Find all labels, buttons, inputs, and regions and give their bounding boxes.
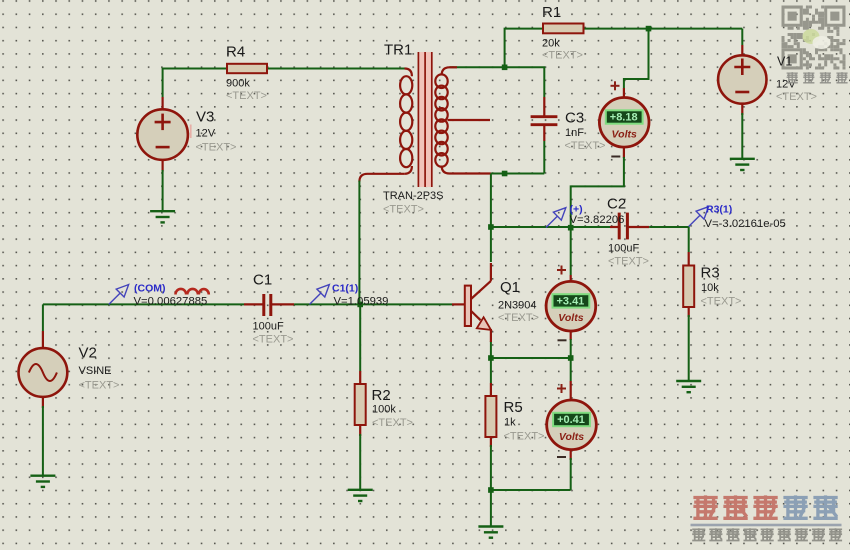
- wire VM2 bottom pin: [570, 331, 572, 340]
- watermark WeChat contact text (grey CJK): [787, 72, 798, 83]
- voltage probe R3(1): [689, 207, 709, 227]
- capacitor C1: [264, 294, 271, 316]
- VM1 plus terminal mark: [611, 81, 620, 90]
- watermark logo big text blue part: [783, 495, 807, 518]
- wire V3 top to R4 left: [163, 69, 227, 98]
- svg-text:Volts: Volts: [612, 128, 637, 140]
- wire VM3 bottom to bus: [570, 458, 572, 490]
- svg-text:<TEXT>: <TEXT>: [565, 140, 606, 152]
- wire bus to ground: [490, 490, 492, 527]
- voltage source V3: [137, 109, 188, 160]
- wire R1 right to V1 top: [584, 28, 743, 30]
- svg-text:2N3904: 2N3904: [498, 300, 537, 312]
- svg-text:<TEXT>: <TEXT>: [542, 50, 583, 62]
- wire VM2 bottom to bus: [570, 339, 572, 358]
- wire VM1 top pin: [623, 88, 625, 97]
- svg-text:TR1: TR1: [384, 42, 412, 59]
- wire VM1 bottom to node: [571, 157, 624, 228]
- ground below R3: [676, 381, 701, 392]
- transformer TR1 center tap: [448, 119, 491, 121]
- ground below V3: [150, 211, 175, 222]
- watermark faint pink strip: [190, 125, 192, 139]
- wire R2 bottom pin: [359, 425, 361, 436]
- svg-text:R4: R4: [226, 44, 245, 61]
- svg-text:C2: C2: [607, 196, 626, 213]
- wire R2 top pin: [359, 371, 361, 384]
- junction node VM2- / VM3+: [568, 355, 574, 361]
- wire R3 bottom pin: [688, 307, 690, 317]
- svg-text:+8.18: +8.18: [610, 111, 638, 123]
- svg-text:<TEXT>: <TEXT>: [701, 296, 742, 308]
- transformer TR1 secondary winding: [435, 67, 449, 173]
- svg-text:<TEXT>: <TEXT>: [776, 91, 817, 103]
- resistor R4: [227, 64, 267, 73]
- wire R2 bottom to ground: [359, 434, 361, 490]
- wire V2 top vertical: [42, 304, 44, 331]
- svg-text:C3: C3: [565, 110, 584, 127]
- voltmeter VM2 reading +3.41: [546, 281, 596, 331]
- wire VM2 top pin: [570, 275, 572, 281]
- voltmeter VM1 reading +8.18: [599, 98, 649, 148]
- transformer TR1 primary winding: [400, 69, 412, 174]
- wire V1 top pin: [741, 45, 743, 56]
- svg-text:100uF: 100uF: [253, 321, 284, 333]
- wire C1 left pin: [244, 303, 263, 305]
- svg-text:+0.41: +0.41: [557, 414, 585, 426]
- svg-text:TRAN-2P3S: TRAN-2P3S: [383, 190, 444, 202]
- svg-text:R3(1): R3(1): [706, 204, 732, 216]
- wire C3 bottom pin: [543, 126, 545, 142]
- wire TR1 sec bottom pin: [450, 172, 491, 174]
- wire collector bus to C2 left: [491, 226, 610, 228]
- junction node collector: [488, 224, 494, 230]
- wire TR1 sec top to C3 top: [450, 67, 545, 97]
- wire R1 left: [505, 29, 543, 68]
- svg-text:C1(1): C1(1): [332, 283, 358, 295]
- wire to voltmeter VM1 plus: [624, 29, 649, 88]
- svg-text:<TEXT>: <TEXT>: [383, 204, 424, 216]
- junction node emitter / R5: [488, 355, 494, 361]
- svg-text:V2: V2: [79, 345, 97, 362]
- voltmeter VM3 reading +0.41: [547, 400, 597, 450]
- wire V1 top vertical: [741, 29, 743, 45]
- junction node R1-left / secondary top: [502, 65, 508, 71]
- svg-text:Volts: Volts: [558, 312, 583, 324]
- voltage probe (+): [546, 208, 566, 228]
- junction node secondary bottom: [502, 171, 508, 177]
- wire V2 bottom to ground: [42, 406, 44, 476]
- wire emitter bus: [491, 357, 571, 359]
- voltage source V1: [718, 55, 766, 103]
- voltage source V2: [19, 348, 68, 397]
- svg-text:C1: C1: [253, 272, 272, 289]
- wire R4 right to TR1 primary top: [267, 68, 405, 70]
- wire R3 bottom to ground: [688, 315, 690, 381]
- wire Q1 base pin: [452, 303, 465, 305]
- wire C3 top pin: [543, 97, 545, 116]
- wire TR1 primary bottom: [359, 174, 404, 182]
- svg-text:20k: 20k: [542, 38, 560, 50]
- VM2 plus terminal mark: [557, 266, 566, 275]
- wire VM3 bottom pin: [570, 450, 572, 460]
- wire V3 bottom pin: [162, 159, 164, 172]
- wire V2 top to C1 left: [43, 303, 244, 305]
- voltage probe (COM): [109, 285, 129, 305]
- svg-text:Q1: Q1: [500, 279, 520, 296]
- svg-text:V3: V3: [196, 109, 214, 126]
- wire bottom bus: [491, 489, 571, 491]
- wire node to VM2 plus: [570, 228, 572, 275]
- svg-text:<TEXT>: <TEXT>: [196, 142, 237, 154]
- resistor R1: [543, 24, 584, 34]
- svg-text:R1: R1: [542, 4, 561, 21]
- ground below V1: [730, 159, 755, 170]
- svg-text:V=0.00627885: V=0.00627885: [134, 295, 208, 307]
- resistor R3: [683, 266, 694, 308]
- junction node (+) / VM1- / VM2+: [568, 225, 574, 231]
- svg-text:V1: V1: [777, 55, 792, 69]
- wire C1 right pin: [271, 303, 294, 305]
- watermark QR code: [782, 6, 803, 27]
- svg-text:<TEXT>: <TEXT>: [79, 380, 120, 392]
- VM3 plus terminal mark: [557, 384, 566, 393]
- resistor R5: [485, 396, 496, 437]
- wire TR1 primary bottom vertical: [358, 181, 360, 305]
- wire V2 top pin: [42, 331, 44, 349]
- wire sec bottom to C3 bottom: [491, 173, 544, 175]
- svg-text:R2: R2: [372, 387, 391, 404]
- svg-text:<TEXT>: <TEXT>: [504, 431, 545, 443]
- transistor Q1: [465, 263, 491, 342]
- watermark logo slogan grey text: [692, 528, 705, 540]
- junction node R1-right / V1 / VM1: [646, 26, 652, 32]
- resistor R2: [355, 384, 366, 425]
- ground main below R5: [478, 527, 503, 538]
- capacitor C2: [619, 213, 627, 240]
- transformer TR1 core: [419, 52, 431, 187]
- ground below R2: [348, 490, 373, 501]
- svg-text:VSINE: VSINE: [79, 365, 112, 377]
- svg-text:(COM): (COM): [134, 283, 166, 295]
- capacitor C3: [531, 117, 558, 125]
- svg-text:<TEXT>: <TEXT>: [608, 256, 649, 268]
- wire V3 top pin: [162, 97, 164, 110]
- svg-text:V=1.05939: V=1.05939: [334, 295, 389, 307]
- svg-text:<TEXT>: <TEXT>: [226, 90, 267, 102]
- svg-text:V=3.82206: V=3.82206: [570, 214, 625, 226]
- wire Q1 emitter to node: [490, 341, 492, 358]
- wire Q1 collector vertical: [490, 227, 492, 262]
- svg-text:<TEXT>: <TEXT>: [253, 334, 294, 346]
- svg-text:1nF: 1nF: [565, 127, 584, 139]
- VM1 minus terminal mark: [611, 156, 620, 158]
- junction node base / R2 / primary: [357, 302, 363, 308]
- svg-text:R3: R3: [701, 265, 720, 282]
- watermark red arcs near COM probe: [176, 289, 209, 295]
- junction node R5 bottom / ground: [488, 487, 494, 493]
- wire V1 bottom pin: [741, 104, 743, 115]
- svg-text:<TEXT>: <TEXT>: [372, 417, 413, 429]
- wire sec bottom down to collector node: [490, 174, 492, 228]
- svg-text:10k: 10k: [701, 282, 719, 294]
- wire C2 left pin: [610, 226, 619, 228]
- wire node to R5 top: [490, 358, 492, 383]
- svg-text:Volts: Volts: [559, 431, 584, 443]
- wire C2 right pin: [627, 226, 649, 228]
- wire R3 top pin: [688, 252, 690, 266]
- voltage probe C1(1): [310, 285, 330, 305]
- svg-text:<TEXT>: <TEXT>: [498, 312, 539, 324]
- wire VM1 bottom pin: [623, 148, 625, 158]
- wire V2 bottom pin: [42, 397, 44, 409]
- wire V3 bottom to ground: [162, 170, 164, 211]
- wire TR1 sec top pin: [450, 66, 458, 68]
- watermark logo underline: [691, 524, 842, 527]
- VM2 minus terminal mark: [558, 339, 567, 341]
- watermark logo big text red part: [693, 495, 717, 518]
- wire R5 bottom pin: [490, 437, 492, 447]
- watermark QR center logo blob: [803, 29, 820, 44]
- svg-text:100k: 100k: [372, 404, 396, 416]
- svg-text:1k: 1k: [504, 417, 516, 429]
- wire C3 bottom vertical: [543, 141, 545, 174]
- wire C2 right to R3 top: [649, 227, 689, 252]
- svg-text:100uF: 100uF: [608, 243, 639, 255]
- wire node to R2 top: [359, 304, 361, 371]
- wire R5 top pin: [490, 383, 492, 396]
- ground below V2: [30, 476, 55, 487]
- svg-text:900k: 900k: [226, 78, 250, 90]
- svg-text:R5: R5: [504, 399, 523, 416]
- svg-text:12V: 12V: [196, 128, 216, 140]
- svg-text:+3.41: +3.41: [556, 295, 584, 307]
- VM3 minus terminal mark: [557, 456, 566, 458]
- wire VM3 top pin: [570, 381, 572, 400]
- svg-text:V=-3.02161e-05: V=-3.02161e-05: [705, 218, 786, 230]
- wire R5 bottom to ground bus: [490, 445, 492, 490]
- wire V1 bottom to ground: [741, 113, 743, 159]
- wire bus to VM3 plus: [570, 358, 572, 381]
- wire C1 right to Q1 base: [294, 303, 452, 305]
